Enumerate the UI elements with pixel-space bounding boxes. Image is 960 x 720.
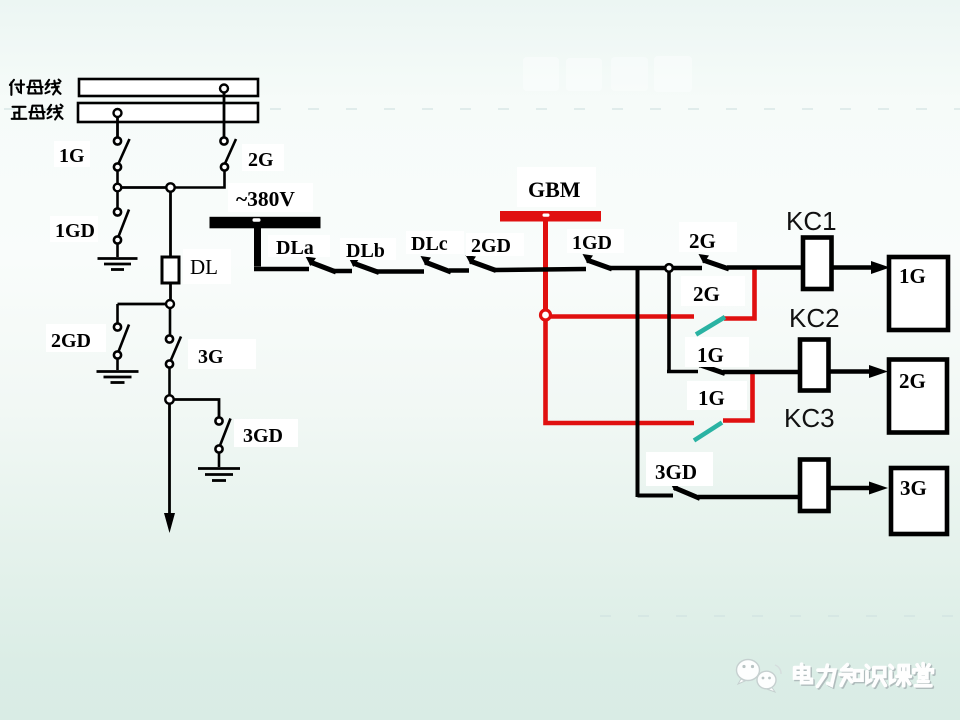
red hook at KC1 wire: [724, 269, 755, 319]
disconnector 3G: [166, 308, 181, 396]
node C below DL: [166, 300, 174, 308]
main wire seg 1: [254, 267, 309, 272]
label 1G (lower): [687, 381, 747, 410]
svg-text:GBM: GBM: [528, 177, 581, 202]
label 3G: [188, 339, 256, 369]
ground 2GD: [97, 372, 139, 383]
switch DLb: [349, 258, 380, 273]
contactor coil KC2: [800, 340, 829, 391]
switch 2G (KC1 row): [699, 254, 730, 269]
label 1G (mid): [685, 337, 749, 367]
svg-text:KC2: KC2: [789, 303, 840, 333]
red feeder down and right (to KC3 row): [546, 318, 695, 423]
red hook at KC2 wire: [723, 373, 753, 421]
wire to 3GD branch: [173, 400, 219, 419]
svg-text:2GD: 2GD: [51, 330, 91, 352]
svg-text:3GD: 3GD: [243, 425, 283, 447]
label 2G (mid): [681, 276, 745, 306]
switch 2GD (line): [466, 255, 497, 271]
wire 3GD row: [638, 494, 674, 498]
svg-text:1G: 1G: [899, 264, 926, 288]
label DLa: [268, 235, 330, 257]
wire seg 7 to KC1: [727, 265, 803, 270]
logo text 电力知识课堂: [795, 664, 933, 687]
bus 付母线 (auxiliary bus): [79, 79, 258, 96]
label GBM: [517, 167, 596, 207]
switch 3GD (row): [670, 482, 701, 499]
svg-text:DLa: DLa: [276, 237, 314, 259]
box 2G: [889, 360, 947, 433]
wire seg 4: [449, 268, 469, 273]
wire bus-tie horizontal: [118, 186, 176, 189]
label 1GD: [50, 216, 98, 242]
label 3GD (left): [234, 419, 298, 447]
bus ~380V: [210, 217, 321, 229]
svg-text:1G: 1G: [697, 343, 724, 367]
svg-text:2G: 2G: [693, 282, 720, 306]
label 1GD (line): [567, 229, 624, 253]
svg-text:KC3: KC3: [784, 403, 835, 433]
wire + arrow into 1G box: [832, 265, 873, 270]
svg-text:DLb: DLb: [346, 240, 385, 262]
label 正母线: [12, 105, 63, 120]
label 2GD: [46, 324, 106, 352]
svg-text:DL: DL: [190, 255, 218, 279]
faint dashed rule top: [4, 108, 960, 110]
teal open blade upper: [696, 317, 725, 335]
label 2G: [242, 144, 284, 171]
earthing switch 2GD: [114, 304, 129, 370]
disconnector 1G: [114, 137, 130, 185]
box 1G: [889, 257, 948, 330]
contactor coil KC1: [803, 238, 832, 290]
wire: 2G riser from aux bus: [223, 92, 226, 138]
riser to 3GD row: [636, 268, 640, 497]
earthing switch 3GD: [215, 417, 230, 467]
node on aux bus: [220, 85, 228, 93]
label 2GD (line): [466, 233, 524, 256]
ground 3GD: [198, 469, 240, 481]
node D feeder tee: [165, 395, 173, 403]
drop to KC2 row: [667, 272, 671, 372]
switch 1GD (line): [583, 254, 613, 269]
svg-text:3G: 3G: [198, 346, 224, 368]
wire: 1G riser from main bus: [116, 117, 119, 138]
svg-text:KC1: KC1: [786, 206, 837, 236]
svg-text:2G: 2G: [248, 149, 274, 171]
wire seg 5: [494, 269, 586, 270]
switch 1G (KC2 row): [695, 359, 726, 374]
svg-text:DLc: DLc: [411, 233, 448, 255]
label 1G: [54, 141, 90, 167]
wire + arrow into 3G box: [829, 486, 871, 491]
teal open blade lower: [694, 423, 722, 441]
svg-text:2G: 2G: [689, 229, 716, 253]
ghost watermark title: [523, 56, 692, 92]
label DLc: [406, 231, 464, 254]
label ~380V: [228, 183, 313, 212]
svg-text:~380V: ~380V: [236, 187, 295, 211]
red stem from GBM: [543, 222, 548, 312]
svg-text:1G: 1G: [698, 386, 725, 410]
wire to 2GD branch: [118, 303, 168, 306]
wire seg 6: [610, 266, 702, 271]
breaker DL: [169, 192, 172, 258]
label 2G (top): [679, 222, 737, 252]
ground 1GD: [98, 259, 138, 270]
svg-text:1GD: 1GD: [55, 220, 95, 242]
earthing switch 1GD: [114, 191, 129, 257]
svg-text:3G: 3G: [900, 476, 927, 500]
wire seg to KC3: [698, 495, 800, 500]
disconnector 2G: [172, 137, 236, 187]
wire KC2 row left: [667, 370, 698, 374]
bus 正母线 (main bus): [78, 103, 258, 122]
svg-text:3GD: 3GD: [655, 460, 697, 484]
wire + arrow into 2G box: [829, 369, 871, 374]
svg-text:1GD: 1GD: [572, 232, 612, 254]
svg-text:2G: 2G: [899, 369, 926, 393]
node B tie: [166, 183, 174, 191]
feeder arrow: [168, 403, 171, 516]
logo text 电力知识课堂 shadow: [796, 665, 934, 688]
switch DLc: [421, 256, 452, 272]
node on main bus: [114, 109, 122, 117]
logo icon chat bubbles: [737, 660, 782, 693]
label 3GD (row): [646, 452, 713, 486]
label DLb: [340, 238, 396, 260]
red bus GBM: [500, 211, 601, 222]
faint dashed rule middle-right: [600, 615, 960, 617]
stem from 380V bus: [254, 228, 261, 267]
node A left: [114, 184, 122, 192]
red branch right (to KC1 row): [546, 314, 695, 319]
wire seg to KC2: [723, 370, 800, 375]
svg-text:1G: 1G: [59, 145, 85, 167]
box 3G: [891, 468, 947, 534]
wire seg 2: [334, 269, 352, 274]
switch DLa: [306, 257, 337, 273]
contactor coil KC3: [800, 460, 829, 512]
label DL: [183, 249, 231, 284]
red node below GBM: [541, 310, 551, 320]
node KC tee: [665, 264, 673, 272]
wire seg 3: [377, 269, 424, 274]
label 付母线: [10, 80, 61, 95]
svg-text:2GD: 2GD: [471, 235, 511, 257]
